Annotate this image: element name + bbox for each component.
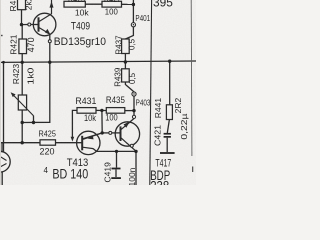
node rail/R441 [168, 60, 171, 63]
wire pot horizontal to emitter column [22, 62, 50, 122]
wire R441 to C421 [167, 120, 169, 134]
right rail (faint) [190, 0, 193, 156]
wire R435 right to P403 column [125, 110, 134, 112]
node top chain/P401 [132, 3, 135, 6]
scan artifact: left edge sliver [0, 0, 1, 185]
wire P403 down [133, 96, 135, 115]
wire R421 to main rail [21, 54, 23, 63]
wire T413 emitter to shared node [93, 149, 136, 152]
resistor R439 [122, 69, 130, 82]
wire top chain left [85, 3, 102, 5]
node rail/R421 [21, 61, 24, 64]
capacitor C419 [112, 168, 121, 170]
node pot wiper [32, 121, 35, 124]
potentiometer R423 body [18, 95, 26, 110]
potentiometer R423 wiper arrow [11, 92, 34, 116]
wire T413 collector column [101, 110, 103, 132]
wire P401 column [132, 5, 134, 23]
ground below C419 [111, 177, 121, 179]
wire vertical divider x=151 [150, 0, 152, 185]
resistor R437 [122, 39, 130, 54]
wire T415 base [102, 132, 109, 134]
wire R439 to P403 [125, 82, 134, 92]
resistor R431 [77, 108, 96, 114]
wire P403 circle to T415 collector [130, 119, 134, 122]
wire T409 base [22, 24, 28, 26]
resistor R423a 10k top-left box [64, 1, 85, 7]
node rail/R437 [124, 60, 127, 63]
node T409 base [20, 23, 23, 26]
test point P401 [131, 23, 135, 27]
wire base node to R421 [21, 25, 23, 39]
node emitter wire/C419 [115, 150, 118, 153]
node left branch [2, 61, 5, 64]
resistor R435 [106, 108, 125, 114]
open connection circles [28, 23, 136, 147]
wire C419 top [116, 151, 118, 167]
wire P401 up stub [132, 0, 134, 5]
wire top chain right [122, 3, 134, 5]
wire C419 middle [115, 170, 117, 178]
resistor R441 [166, 105, 172, 120]
wire C421 to ground [166, 138, 168, 152]
resistor R421 [19, 39, 27, 54]
wire pot bottom [21, 110, 23, 123]
small dash right edge near BDP [192, 167, 194, 173]
node rail/emitter [48, 61, 51, 64]
node T413 coll/T415 base [101, 131, 104, 134]
wire T413 base row [0, 142, 40, 144]
wire T411 bottom lead [1, 172, 3, 185]
wire R441 branch top [169, 61, 171, 105]
resistor R425 [40, 140, 56, 145]
node base wire/pot [21, 141, 24, 144]
wire main rail to pot R423 [21, 62, 23, 95]
wire R419 to base node [21, 10, 23, 25]
wire pot wiper vertical [33, 116, 35, 123]
node R431-R435/T413 [100, 109, 103, 112]
scan artifact: left edge tick [0, 35, 3, 36]
scan noise overlay [0, 0, 1, 1]
wire left branch vertical [3, 62, 5, 152]
node pot bottom [21, 121, 24, 124]
transistor T413 [77, 131, 103, 154]
wire pot node down to T413 base wire [21, 123, 23, 143]
wire T409 emitter column [49, 34, 51, 39]
ground below C421 [160, 152, 175, 154]
arrow into T413 base wire [71, 137, 75, 142]
resistor R419 (cut at top) [18, 0, 26, 10]
resistor R427 100 top box [102, 1, 122, 7]
transistor T409 [33, 0, 56, 36]
wire main horizontal rail y=62 [0, 61, 196, 62]
capacitor C421 [164, 133, 171, 138]
wire T415 emitter down [135, 151, 137, 185]
wire R437 to R439 [124, 54, 126, 69]
wire R431 left leg [72, 110, 77, 138]
test point P403 [132, 92, 136, 96]
wire P401 to R437 [125, 27, 133, 39]
wire T413 collector diag [83, 133, 102, 139]
transistor T415 [115, 122, 139, 147]
wire T415 emitter diag [127, 143, 136, 151]
node R435/P403 column [132, 109, 135, 112]
transistor T411 (clipped at left edge) [0, 143, 10, 172]
node emitter wire/T415 [134, 150, 137, 153]
wire R431 to R435 [96, 109, 106, 111]
